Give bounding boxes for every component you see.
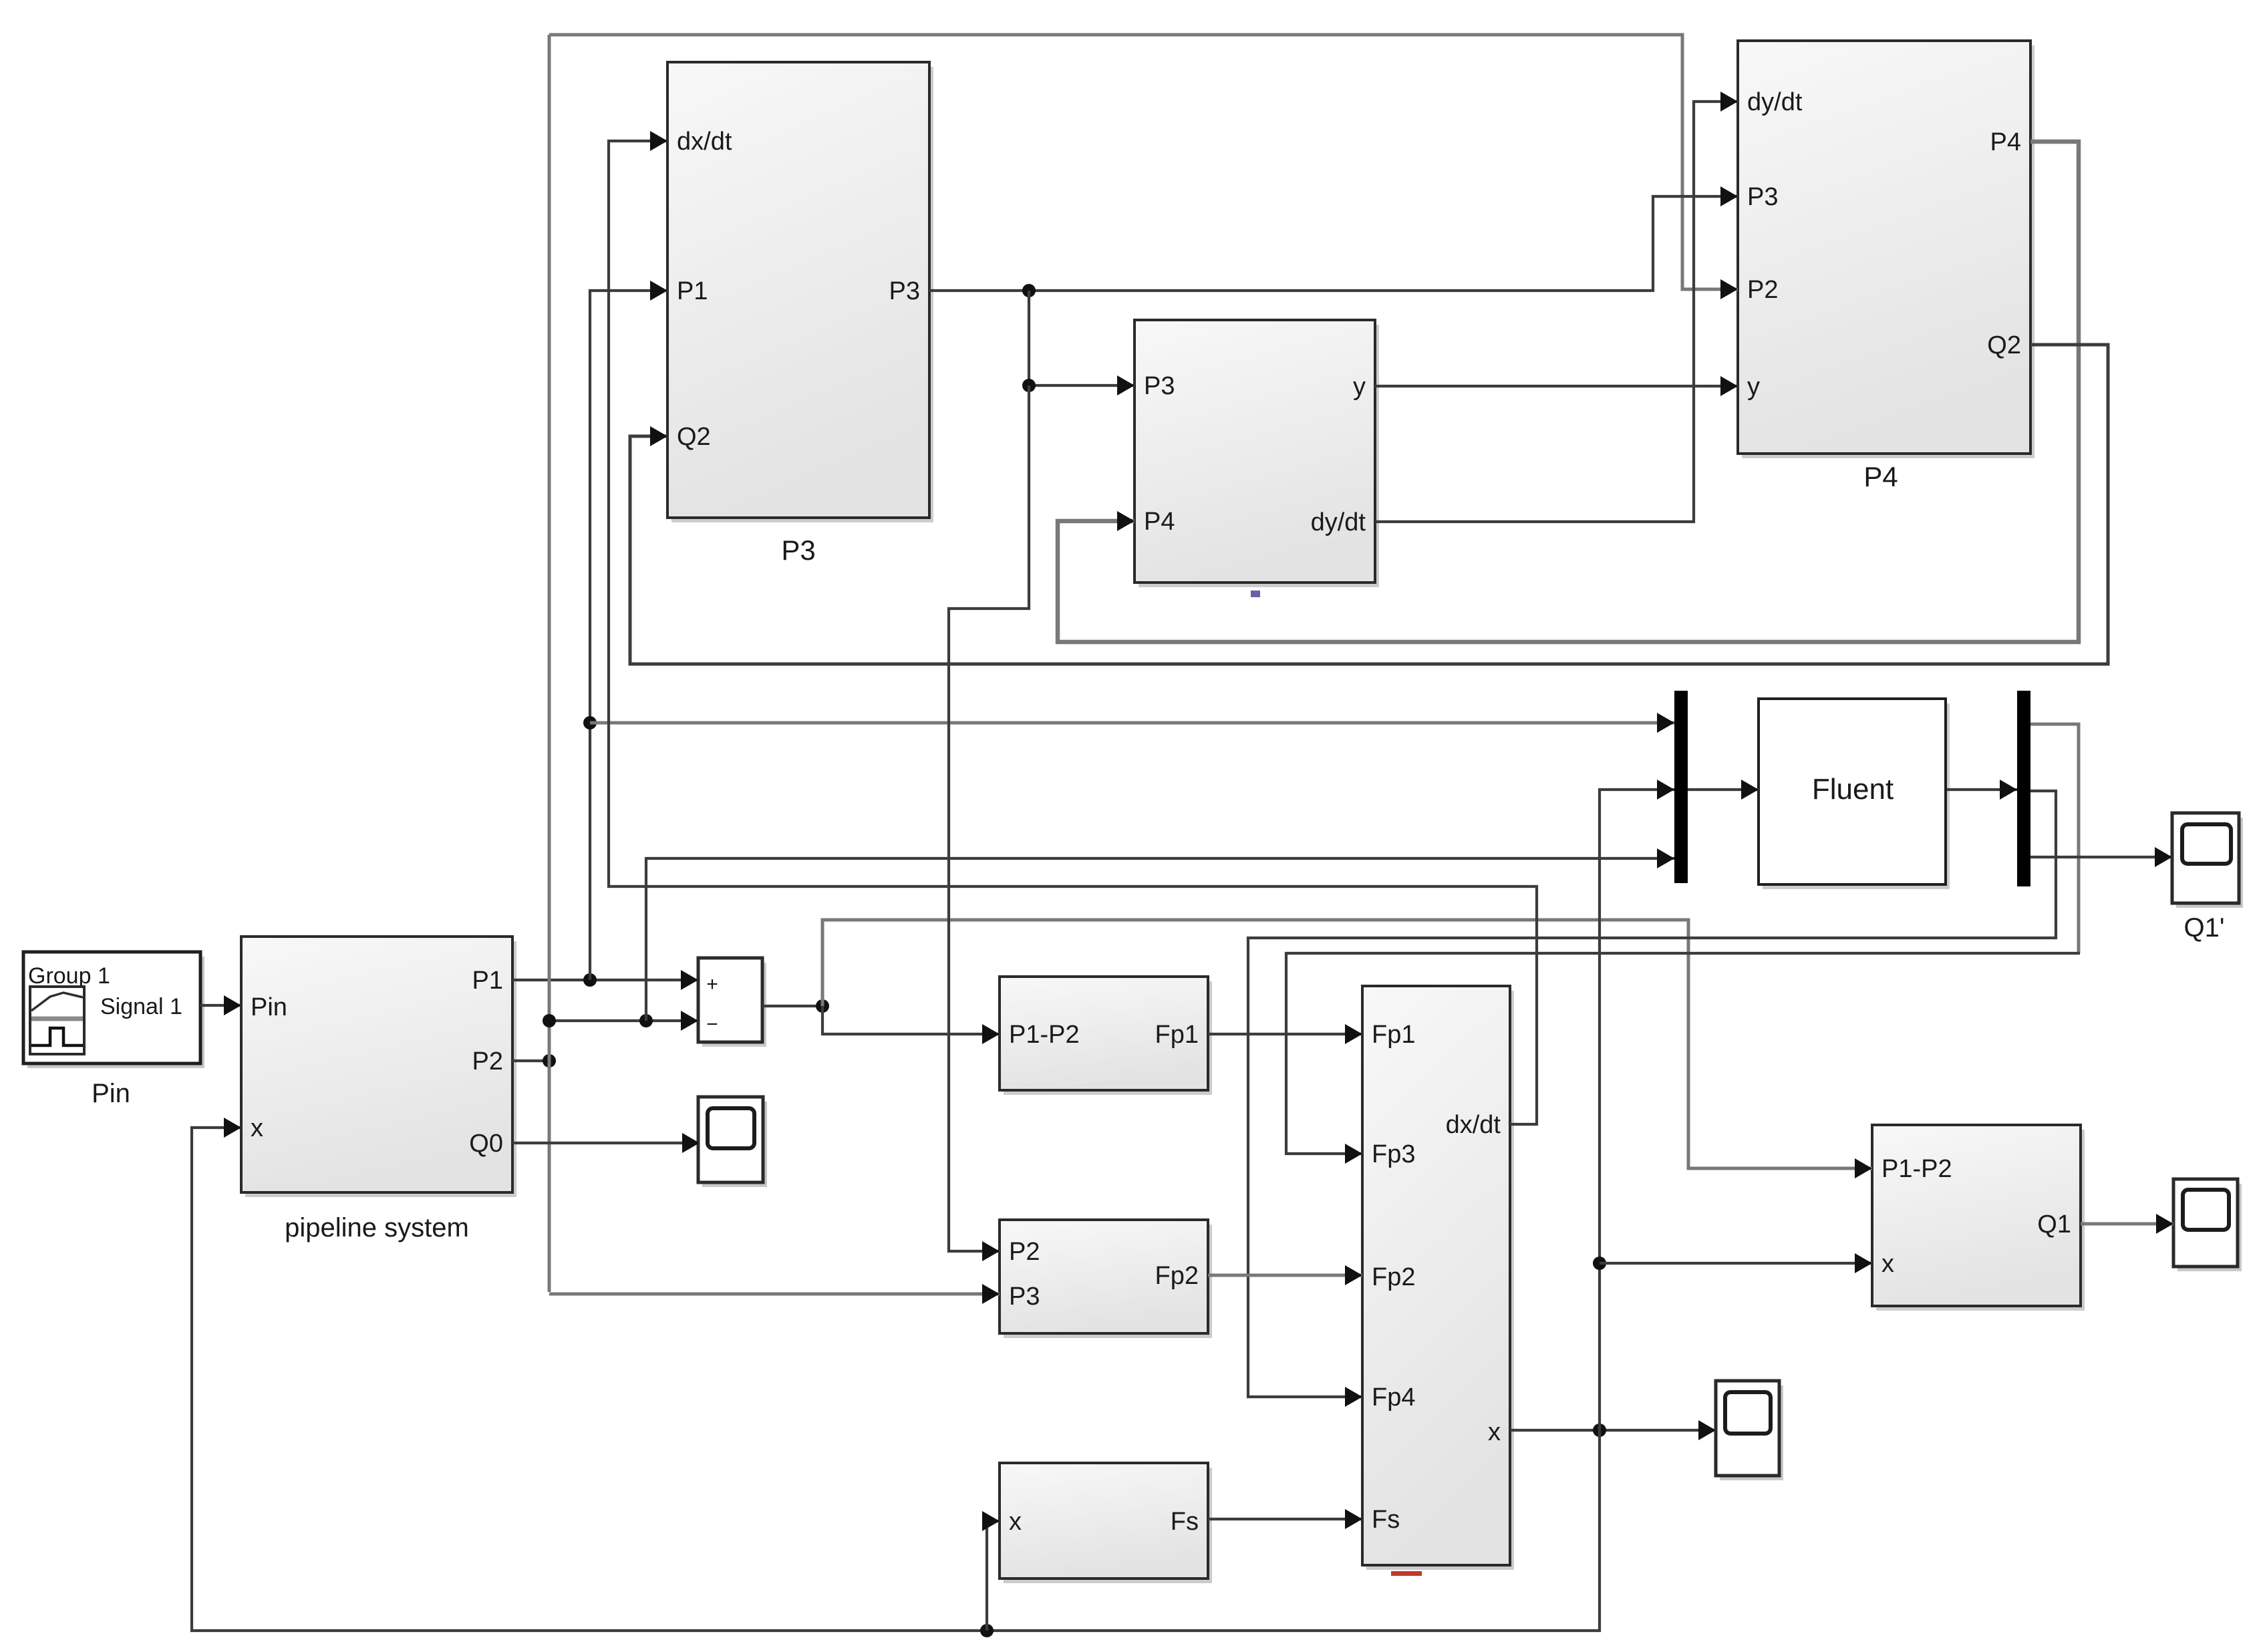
junction node P3 out (1540,435) — [1022, 284, 1036, 297]
svg-text:P3: P3 — [1747, 183, 1778, 211]
arrowhead into P1-P2 block input — [982, 1024, 1000, 1044]
signal builder icon inside Pin block — [30, 987, 84, 1054]
wire big block x output to scope x — [1510, 1429, 1716, 1432]
wire P3 output run — [929, 196, 1738, 291]
subsystem block P2,P3 to Fp2 — [1000, 1220, 1212, 1338]
subsystem block P3 (pipe section 3 model) — [667, 62, 933, 522]
wire x to Q1 block x input — [1600, 1262, 1872, 1265]
svg-text:dx/dt: dx/dt — [1446, 1111, 1501, 1139]
svg-text:pipeline system: pipeline system — [285, 1213, 469, 1243]
arrowhead into middle block P3 input — [1117, 375, 1135, 395]
subsystem block P1-P2 to Fp1 — [1000, 977, 1212, 1095]
arrowhead into P2P3 block P2 input — [982, 1241, 1000, 1261]
wire P2 gray riser — [548, 35, 551, 1292]
wire P1 to mux input 1 — [590, 721, 1674, 725]
scope x — [1716, 1381, 1783, 1480]
svg-text:Fp1: Fp1 — [1155, 1021, 1199, 1049]
arrowhead into sum plus input — [681, 970, 698, 990]
svg-text:Q2: Q2 — [677, 423, 711, 451]
wire pipeline.P2 stub — [512, 1059, 549, 1062]
svg-text:P3: P3 — [1009, 1283, 1040, 1311]
svg-text:Signal 1: Signal 1 — [100, 994, 182, 1019]
wire x riser to mux input 2 — [1600, 790, 1674, 1430]
wire demux out1 first segment — [2030, 724, 2079, 953]
arrowhead into scope Q1 — [2156, 1214, 2173, 1234]
wire Q1 output to scope Q1 — [2081, 1222, 2173, 1226]
svg-text:Pin: Pin — [251, 993, 287, 1021]
svg-text:dy/dt: dy/dt — [1747, 88, 1803, 116]
wire P4 output feedback to middle block P4 input — [1058, 142, 2079, 642]
svg-text:P1-P2: P1-P2 — [1881, 1155, 1952, 1183]
svg-text:P4: P4 — [1863, 461, 1898, 492]
junction node minus wire at gray riser (822,1528) — [543, 1014, 556, 1027]
wire Fs to big block — [1208, 1518, 1362, 1520]
junction node P1 at (883,1467) — [583, 973, 597, 987]
wire P2 top run to P4.P2 — [549, 35, 1738, 289]
arrowhead into P2P3 block P3 input — [982, 1284, 1000, 1304]
svg-text:x: x — [1009, 1508, 1022, 1536]
arrowhead into scope x — [1698, 1420, 1716, 1440]
svg-text:P3: P3 — [889, 277, 920, 305]
junction node P3 (1540,577) — [1022, 379, 1036, 392]
svg-text:Group 1: Group 1 — [28, 963, 110, 989]
svg-text:Fp1: Fp1 — [1372, 1021, 1415, 1049]
arrowhead into Q1 block x input — [1855, 1253, 1872, 1273]
demux bar — [2017, 691, 2030, 886]
svg-text:+: + — [706, 973, 718, 995]
svg-text:P2: P2 — [472, 1047, 503, 1076]
wire P1 riser to P3.P1 — [590, 291, 667, 980]
svg-text:x: x — [1488, 1418, 1501, 1446]
mux bar — [1674, 691, 1688, 883]
arrowhead into P4.P3 — [1720, 186, 1738, 206]
wire sum output to P1-P2 block input — [822, 1006, 1000, 1034]
junction node minus wire (967,1528) — [639, 1014, 653, 1027]
svg-text:x: x — [1881, 1250, 1894, 1278]
junction node P2 (822,1588) — [543, 1054, 556, 1067]
wire Fluent output to demux — [1947, 788, 2017, 791]
wire Pin source to pipeline.Pin — [200, 1004, 241, 1007]
svg-text:−: − — [706, 1013, 718, 1035]
wire x riser to x-to-Fs block input — [987, 1521, 1000, 1631]
wire Fp1 to big block — [1208, 1033, 1362, 1035]
wire sum output to Q1 block P1-P2 input — [822, 920, 1872, 1168]
svg-text:P4: P4 — [1144, 508, 1175, 536]
arrowhead into P4.y — [1720, 376, 1738, 396]
wire pipeline.Q0 to scope Q0 — [512, 1142, 700, 1144]
wire demux out2 to big block Fp4 — [1248, 791, 2056, 1397]
wire x feedback bottom run to pipeline.x — [192, 1128, 1600, 1631]
svg-text:Q2: Q2 — [1987, 331, 2021, 359]
svg-text:Fluent: Fluent — [1812, 773, 1894, 806]
subsystem block Q1 (P1-P2,x to Q1) — [1872, 1125, 2085, 1311]
wire P2 to sum minus — [549, 1019, 698, 1022]
arrowhead into big block Fp1 — [1345, 1024, 1362, 1044]
svg-text:Pin: Pin — [92, 1079, 130, 1108]
svg-text:P2: P2 — [1747, 276, 1778, 304]
arrowhead into middle block P4 input — [1117, 511, 1135, 531]
arrowhead into mux input 1 — [1657, 713, 1674, 733]
svg-text:P2: P2 — [1009, 1238, 1040, 1266]
arrowhead into big block Fp2 — [1345, 1265, 1362, 1285]
svg-text:y: y — [1747, 373, 1760, 401]
arrowhead into pipeline.x — [224, 1118, 241, 1138]
wire sum output — [762, 1005, 822, 1007]
arrowhead into P3.P1 — [650, 281, 667, 301]
wire P3 riser to middle block P3 input — [1029, 291, 1135, 385]
tiny clipped label mark under middle block — [1251, 591, 1260, 597]
svg-text:Fs: Fs — [1372, 1506, 1400, 1534]
svg-text:P1: P1 — [677, 277, 708, 305]
sum block (P1 plus, P2 minus) — [698, 958, 766, 1047]
svg-text:P1: P1 — [472, 967, 503, 995]
wire middle block y output to P4.y — [1375, 385, 1738, 387]
arrowhead into P3.dx/dt — [650, 131, 667, 151]
wire Fp2 to big block — [1208, 1274, 1362, 1277]
arrowhead into scope Q1-prime — [2155, 847, 2172, 867]
arrowhead into Fluent — [1741, 780, 1759, 800]
subsystem block x to Fs — [1000, 1463, 1212, 1583]
arrowhead into big block Fp4 — [1345, 1387, 1362, 1407]
arrowhead into scope Q0 — [682, 1133, 700, 1153]
arrowhead into P4.P2 — [1720, 279, 1738, 299]
arrowhead into x-to-Fs block input — [982, 1511, 1000, 1531]
junction node x (2394,2141) — [1593, 1424, 1606, 1437]
wire middle block dy/dt output to P4.dy/dt — [1375, 102, 1738, 522]
svg-text:P3: P3 — [1144, 372, 1175, 400]
svg-text:P3: P3 — [781, 534, 815, 566]
arrowhead into P3.Q2 — [650, 426, 667, 446]
scope Q1-prime — [2172, 813, 2243, 908]
wire P2 bottom run to P2P3 block P3 input — [549, 1293, 1000, 1296]
wire mux output to Fluent — [1688, 788, 1759, 791]
tiny clipped label mark under big block — [1391, 1571, 1422, 1576]
arrowhead into big block Fp3 — [1345, 1144, 1362, 1164]
junction node x bottom (1477,2441) — [980, 1624, 994, 1637]
arrowhead into mux input 2 — [1657, 780, 1674, 800]
wire demux out3 to scope Q1-prime — [2030, 856, 2172, 858]
arrowhead into demux — [2000, 780, 2017, 800]
wire big block dx/dt output to P3.dx/dt — [609, 141, 1537, 1124]
junction node P1 to mux (883,1082) — [583, 716, 597, 729]
wire P4.Q2 feedback to P3.Q2 — [630, 345, 2108, 664]
wire P2 riser to mux input 3 — [646, 858, 1674, 1021]
junction node sum output (1231,1506) — [816, 999, 829, 1013]
subsystem block middle (P3,P4 to y,dy/dt) — [1135, 320, 1379, 587]
arrowhead into mux input 3 — [1657, 848, 1674, 868]
arrowhead into P4.dy/dt — [1720, 92, 1738, 112]
scope Q1 — [2173, 1179, 2242, 1271]
arrowhead into sum minus input — [681, 1011, 698, 1031]
wire P3 jog down to P2P3 block P2 input — [949, 385, 1029, 1251]
junction node x (2394,1891) — [1593, 1257, 1606, 1270]
svg-text:dx/dt: dx/dt — [677, 128, 732, 156]
svg-text:y: y — [1353, 373, 1366, 401]
source block Pin (Signal Builder) — [23, 952, 204, 1068]
svg-text:Fp2: Fp2 — [1372, 1263, 1415, 1291]
scope Q0 — [698, 1097, 767, 1187]
arrowhead into Q1 block P1-P2 input — [1855, 1158, 1872, 1178]
svg-text:Q1': Q1' — [2184, 913, 2225, 943]
wire demux out1 to big block Fp3 — [1286, 953, 2080, 1154]
svg-text:Fp3: Fp3 — [1372, 1140, 1415, 1168]
svg-text:Q0: Q0 — [469, 1130, 503, 1158]
wire pipeline.P1 to sum plus — [512, 979, 698, 981]
svg-text:dy/dt: dy/dt — [1311, 508, 1366, 536]
subsystem block P4 (pipe section 4 model) — [1738, 41, 2034, 458]
arrowhead into pipeline.Pin — [224, 995, 241, 1015]
svg-text:Fs: Fs — [1171, 1508, 1199, 1536]
svg-text:Fp4: Fp4 — [1372, 1383, 1415, 1412]
Fluent block — [1759, 699, 1950, 889]
svg-text:P4: P4 — [1990, 128, 2021, 156]
subsystem block pipeline system — [241, 937, 516, 1197]
svg-text:P1-P2: P1-P2 — [1009, 1021, 1080, 1049]
svg-text:x: x — [251, 1114, 263, 1142]
arrowhead into big block Fs — [1345, 1509, 1362, 1529]
subsystem block piston dynamics (Fp,Fs to dx/dt,x) — [1362, 986, 1514, 1570]
svg-text:Fp2: Fp2 — [1155, 1262, 1199, 1290]
svg-text:Q1: Q1 — [2037, 1210, 2071, 1238]
